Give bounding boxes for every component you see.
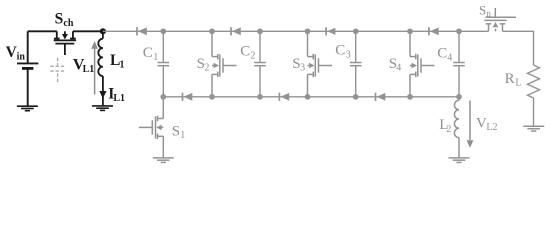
svg-text:n: n <box>486 9 491 19</box>
bottom rail wire <box>163 96 459 98</box>
svg-text:C: C <box>437 46 447 62</box>
svg-text:L: L <box>515 77 521 88</box>
capacitor C3 <box>350 31 362 97</box>
inductor L2 <box>454 97 459 158</box>
diode D5 bottom <box>183 93 193 101</box>
node S4 bottom <box>407 94 413 100</box>
wire Sn to RL <box>503 31 534 65</box>
ground under RL <box>523 126 544 131</box>
svg-text:1: 1 <box>153 52 158 63</box>
svg-text:V: V <box>476 116 487 132</box>
svg-text:S: S <box>479 2 486 17</box>
svg-text:3: 3 <box>346 49 351 60</box>
svg-text:3: 3 <box>300 63 305 74</box>
VL2 voltage arrow <box>469 100 471 140</box>
parasitic capacitor (dashed) on Sch gate <box>50 58 64 83</box>
VL1 voltage arrow <box>94 47 96 95</box>
node S2 top <box>209 28 215 34</box>
switch S2 MOSFET <box>212 31 237 97</box>
svg-text:2: 2 <box>204 63 209 74</box>
node C4 bottom <box>456 94 462 100</box>
diode D1 top <box>137 27 147 35</box>
switch S1 MOSFET <box>139 97 164 158</box>
ground under S1 <box>153 158 174 163</box>
svg-text:C: C <box>240 44 250 60</box>
svg-text:C: C <box>143 45 153 61</box>
node C2 bottom <box>257 94 263 100</box>
diode D4 top <box>429 27 439 35</box>
node C3 bottom <box>353 94 359 100</box>
svg-text:4: 4 <box>447 53 452 64</box>
resistor RL <box>528 65 540 126</box>
svg-text:2: 2 <box>250 51 255 62</box>
svg-text:S: S <box>172 124 180 140</box>
svg-text:1: 1 <box>120 60 125 71</box>
ground under Vin <box>17 106 38 111</box>
svg-text:4: 4 <box>396 63 401 74</box>
svg-text:L1: L1 <box>83 64 95 75</box>
inductor L1 <box>98 31 103 105</box>
node C2 top <box>257 28 263 34</box>
diode D7 bottom <box>376 93 386 101</box>
svg-text:R: R <box>505 71 515 87</box>
diode D3 top <box>326 27 335 35</box>
voltage source Vin battery <box>17 31 38 105</box>
node A <box>100 28 106 34</box>
node S3 bottom <box>305 94 311 100</box>
node S4 top <box>407 28 413 34</box>
top rail wire node A to Sn <box>103 30 489 32</box>
capacitor C2 <box>254 31 266 97</box>
node S3 top <box>305 28 311 34</box>
wire Vin to Sch <box>28 30 57 32</box>
ground under L1 <box>92 106 113 111</box>
svg-text:in: in <box>17 52 26 63</box>
capacitor C4 <box>453 31 465 97</box>
node C3 top <box>353 28 359 34</box>
capacitor C1 <box>158 31 170 97</box>
node C1 top <box>160 28 166 34</box>
svg-text:2: 2 <box>446 124 451 135</box>
diode D6 bottom <box>279 93 289 101</box>
switch Sn MOSFET <box>484 8 516 31</box>
ground under L2 <box>449 158 470 163</box>
svg-text:L1: L1 <box>113 93 125 104</box>
switch S4 MOSFET <box>410 31 435 97</box>
node S2 bottom <box>209 94 215 100</box>
wire Sch to node A <box>73 30 103 32</box>
diode D2 top <box>231 27 241 35</box>
IL1 current arrowhead <box>99 91 106 99</box>
svg-text:ch: ch <box>63 18 73 29</box>
svg-text:1: 1 <box>180 130 185 141</box>
node C4 top <box>456 28 462 34</box>
switch Sch MOSFET <box>54 31 76 55</box>
node C1 bottom <box>160 94 166 100</box>
switch S3 MOSFET <box>308 31 333 97</box>
svg-text:C: C <box>335 42 345 58</box>
svg-text:S: S <box>55 11 64 28</box>
svg-text:L2: L2 <box>486 122 497 133</box>
